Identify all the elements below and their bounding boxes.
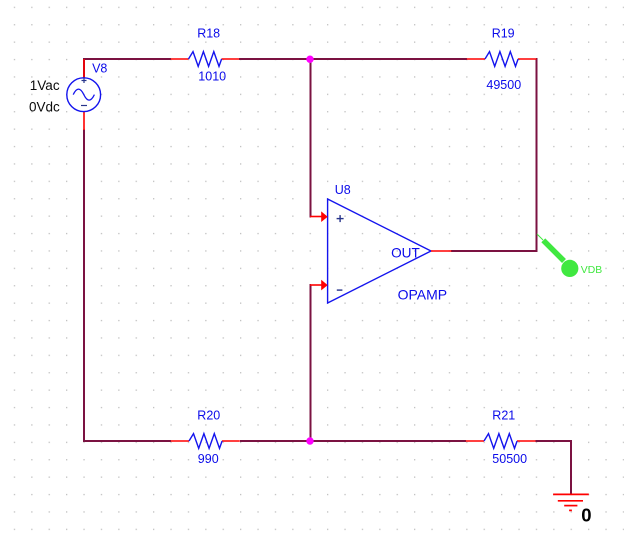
wire: opamp output to right corner: [451, 250, 538, 252]
- input pin: [310, 284, 322, 286]
node junction dot top: [306, 56, 313, 63]
wire: bottom rail left: [83, 440, 171, 442]
node junction dot bottom: [306, 437, 313, 444]
wire: R18 right to R19 left (through node): [239, 58, 467, 60]
VDB probe marker: [537, 234, 602, 277]
svg-text:OUT: OUT: [391, 245, 420, 260]
wire top-left: V8 top to R18 left: [84, 59, 171, 78]
svg-text:1010: 1010: [198, 69, 226, 83]
svg-text:1Vac: 1Vac: [30, 78, 60, 93]
voltage source V8: [29, 59, 107, 130]
ground 0: [553, 494, 591, 525]
svg-text:R18: R18: [197, 26, 220, 40]
svg-text:V8: V8: [92, 61, 107, 75]
svg-text:0: 0: [581, 504, 591, 525]
wire: top node down to + input: [310, 59, 313, 217]
resistor R20: [171, 408, 240, 466]
svg-text:U8: U8: [335, 183, 351, 197]
wire: R20 right to R21 left (through node): [240, 440, 466, 442]
svg-text:OPAMP: OPAMP: [398, 287, 448, 303]
wire: bottom node up to - input: [310, 285, 313, 441]
resistor R19: [467, 26, 537, 92]
svg-text:R20: R20: [197, 408, 220, 422]
wire: left vertical V8 bottom to bottom rail: [83, 130, 85, 443]
svg-text:R21: R21: [492, 408, 515, 422]
resistor R21: [466, 408, 536, 466]
svg-text:VDB: VDB: [581, 265, 602, 276]
svg-text:49500: 49500: [486, 78, 521, 92]
output pin: [431, 250, 452, 252]
svg-text:990: 990: [198, 452, 219, 466]
+ input pin: [310, 216, 322, 218]
op-amp U8: [310, 183, 452, 303]
wire: R19 right corner down to output node: [535, 59, 538, 251]
svg-text:R19: R19: [492, 26, 515, 40]
svg-text:0Vdc: 0Vdc: [29, 99, 60, 114]
wire: R21 right to ground corner: [536, 441, 572, 494]
svg-text:50500: 50500: [492, 452, 527, 466]
resistor R18: [171, 26, 239, 83]
